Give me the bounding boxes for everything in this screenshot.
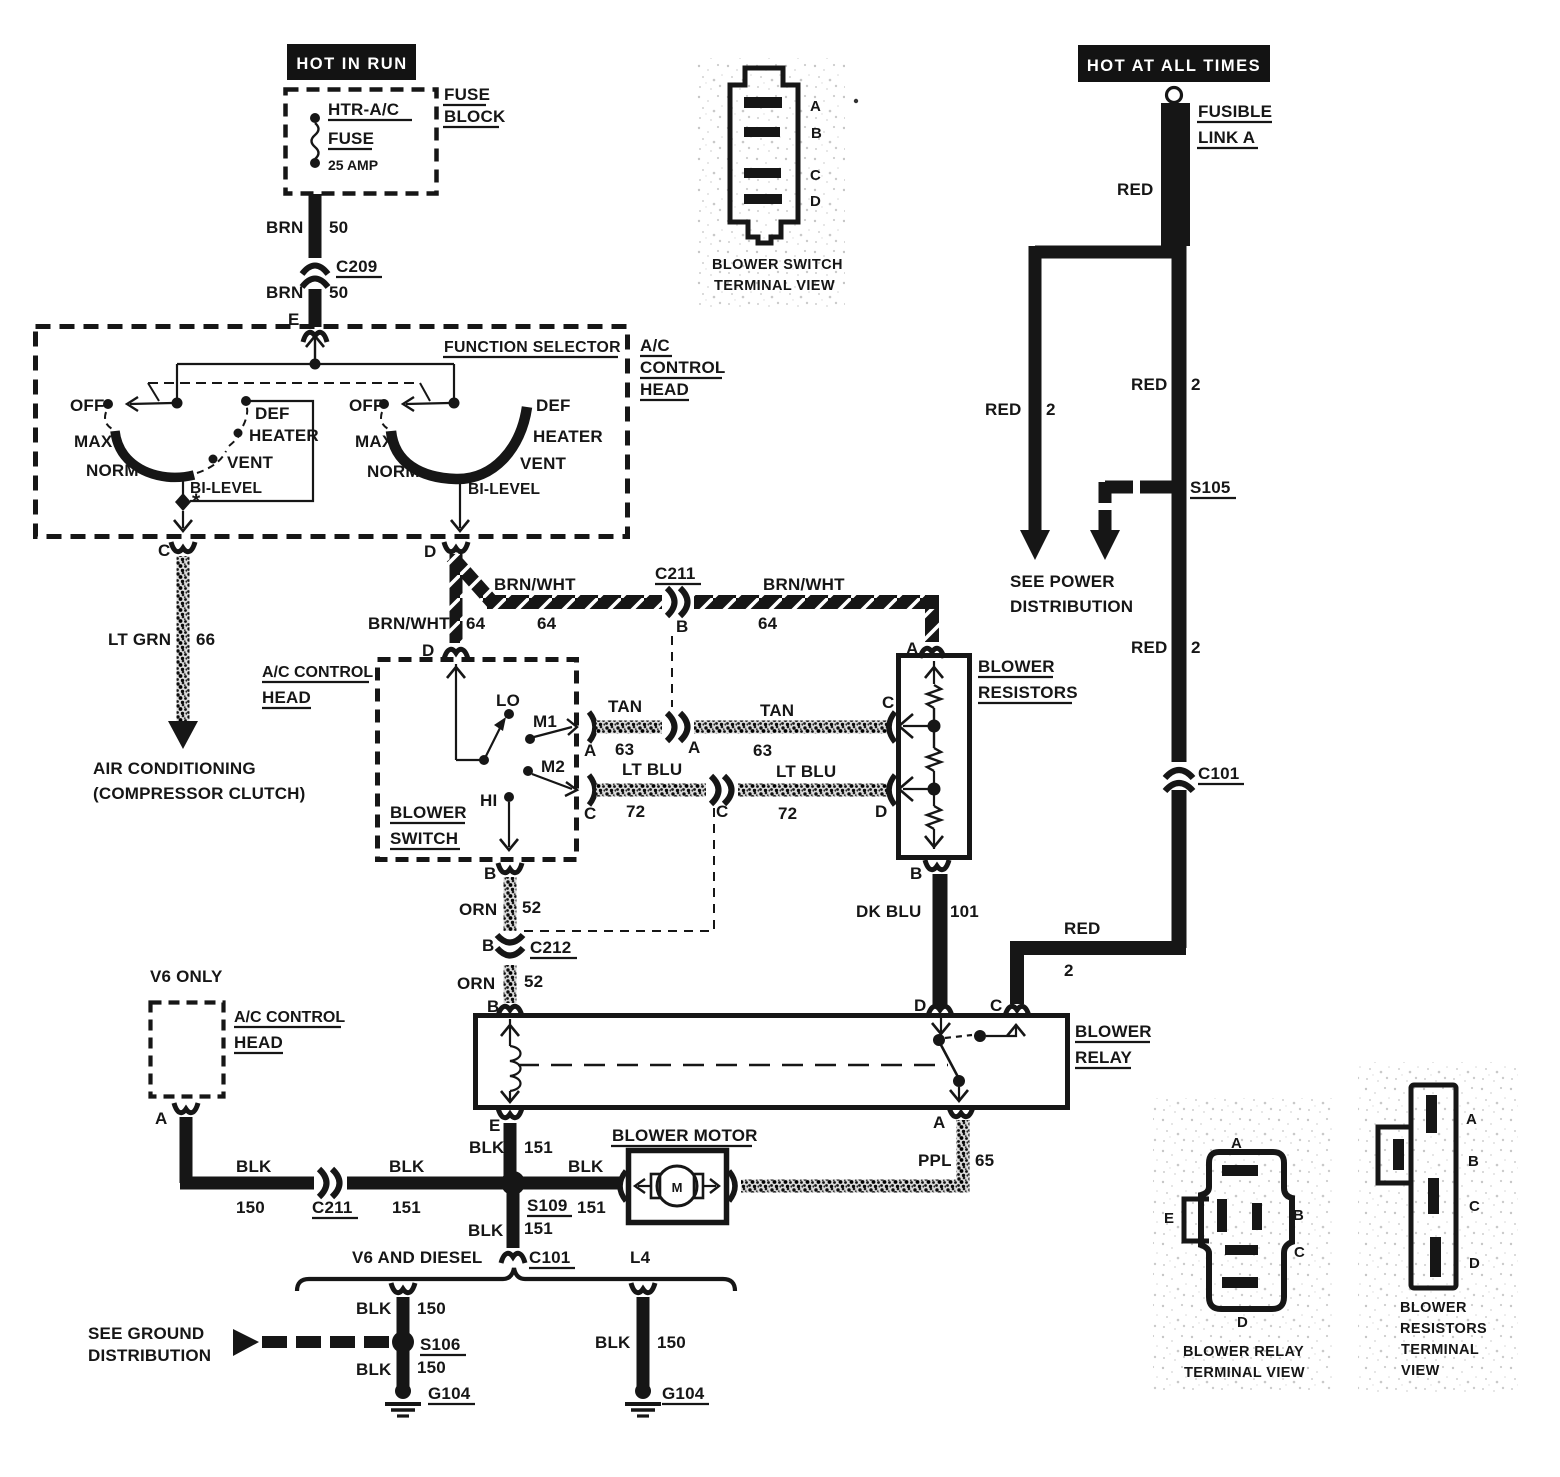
svg-text:LINK A: LINK A: [1198, 128, 1255, 147]
node OFF left: [103, 399, 113, 409]
svg-text:HEAD: HEAD: [234, 1033, 283, 1052]
svg-text:B: B: [484, 864, 496, 883]
svg-text:DK BLU: DK BLU: [856, 902, 921, 921]
svg-text:V6 AND DIESEL: V6 AND DIESEL: [352, 1248, 482, 1267]
wire RED 2 main vertical: [1172, 246, 1187, 948]
svg-text:BLK: BLK: [468, 1221, 504, 1240]
svg-text:BLK: BLK: [236, 1157, 272, 1176]
connector C101: [501, 1253, 525, 1263]
svg-text:L4: L4: [630, 1248, 651, 1267]
ground G104 left: [385, 1383, 475, 1416]
svg-text:A: A: [584, 741, 596, 760]
svg-text:C209: C209: [336, 257, 377, 276]
svg-text:A: A: [1231, 1135, 1242, 1152]
node D tap: [928, 783, 941, 796]
svg-text:FUSIBLE: FUSIBLE: [1198, 102, 1272, 121]
svg-text:PPL: PPL: [918, 1151, 952, 1170]
pin C bracket: [589, 775, 595, 805]
E tab: [1184, 1199, 1209, 1241]
pin right motor: [729, 1171, 735, 1201]
relay dashed link: [518, 1064, 948, 1066]
pin A bracket: [589, 712, 595, 742]
svg-text:101: 101: [950, 902, 979, 921]
svg-text:A/C: A/C: [640, 336, 670, 355]
svg-text:72: 72: [626, 802, 645, 821]
wire M1 to A: [534, 727, 572, 737]
svg-text:2: 2: [1046, 400, 1056, 419]
svg-text:C212: C212: [530, 938, 571, 957]
svg-text:72: 72: [778, 804, 797, 823]
resistor chain: [925, 661, 943, 849]
svg-text:150: 150: [657, 1333, 686, 1352]
svg-text:TERMINAL VIEW: TERMINAL VIEW: [1184, 1365, 1305, 1381]
svg-text:BLK: BLK: [469, 1138, 505, 1157]
svg-text:BLOWER SWITCH: BLOWER SWITCH: [712, 257, 843, 273]
svg-text:BLK: BLK: [356, 1360, 392, 1379]
svg-text:D: D: [1469, 1255, 1480, 1272]
svg-text:G104: G104: [428, 1384, 471, 1403]
svg-text:SEE GROUND: SEE GROUND: [88, 1324, 204, 1343]
node C tap: [928, 720, 941, 733]
wire BRN/WHT down to resistors A: [925, 602, 939, 642]
svg-text:BRN/WHT: BRN/WHT: [368, 614, 450, 633]
arrow into function selector: [314, 338, 316, 364]
svg-text:NORM: NORM: [367, 462, 420, 481]
svg-text:HOT IN RUN: HOT IN RUN: [296, 55, 407, 73]
dashed connector link down from LT BLU C: [522, 808, 714, 931]
svg-text:B: B: [811, 125, 822, 142]
svg-text:E: E: [1164, 1210, 1174, 1227]
see ground distribution arrow: [233, 1329, 259, 1356]
svg-text:BLOWER: BLOWER: [1075, 1022, 1152, 1041]
connector C101 on RED: [1163, 762, 1244, 791]
svg-text:D: D: [875, 802, 887, 821]
wire arc to pin D: [459, 480, 461, 528]
svg-text:HEAD: HEAD: [640, 380, 689, 399]
svg-text:BLK: BLK: [595, 1333, 631, 1352]
svg-text:BLK: BLK: [568, 1157, 604, 1176]
connector outline: [730, 68, 798, 243]
wire TAN 63: [596, 721, 887, 734]
dashed connector line from C211 B: [671, 636, 673, 707]
motor M: [635, 1166, 719, 1206]
svg-text:VENT: VENT: [227, 453, 274, 472]
svg-text:B: B: [910, 864, 922, 883]
wire HI to B: [508, 802, 510, 847]
svg-text:S105: S105: [1190, 478, 1231, 497]
svg-text:TERMINAL: TERMINAL: [1401, 1342, 1479, 1358]
label BLOWER SWITCH: [390, 803, 467, 849]
svg-text:BLK: BLK: [356, 1299, 392, 1318]
connector C211 on BRN/WHT: [655, 564, 701, 636]
connector outline: [1201, 1152, 1292, 1309]
svg-text:A: A: [155, 1109, 167, 1128]
svg-text:BRN: BRN: [266, 283, 303, 302]
wire LT BLU 72: [596, 784, 887, 797]
svg-text:BRN/WHT: BRN/WHT: [763, 575, 845, 594]
label HOT AT ALL TIMES: [1078, 45, 1270, 82]
svg-text:151: 151: [392, 1198, 421, 1217]
wire RED 2 elbow to relay C: [1017, 941, 1186, 955]
label BLOWER RELAY: [1075, 1022, 1152, 1068]
svg-text:C: C: [1294, 1244, 1305, 1261]
svg-text:50: 50: [329, 218, 348, 237]
node output diamond: [175, 493, 191, 511]
svg-text:64: 64: [537, 614, 557, 633]
svg-text:TERMINAL VIEW: TERMINAL VIEW: [714, 278, 835, 294]
wire DK BLU 101: [933, 874, 948, 1007]
label A/C CONTROL HEAD: [640, 336, 725, 400]
svg-text:BLOWER: BLOWER: [978, 657, 1055, 676]
svg-text:BLK: BLK: [389, 1157, 425, 1176]
svg-text:ORN: ORN: [457, 974, 495, 993]
brace: [297, 1268, 735, 1291]
slots: [1222, 1165, 1258, 1176]
label FUSE BLOCK: [443, 85, 506, 127]
wire ORN 52 lower: [504, 965, 517, 1003]
svg-text:2: 2: [1064, 961, 1074, 980]
wire BLK down from S109: [507, 1183, 520, 1248]
node M1: [525, 734, 535, 744]
svg-text:TAN: TAN: [608, 697, 642, 716]
label BLOWER RESISTORS: [978, 657, 1078, 703]
node LO: [504, 709, 514, 719]
wire BLK 151 from relay E: [504, 1123, 517, 1183]
svg-text:FUSE: FUSE: [328, 129, 374, 148]
blower motor box: [629, 1151, 727, 1223]
svg-text:D: D: [1237, 1314, 1248, 1331]
terminal circle: [1167, 88, 1182, 103]
svg-text:TAN: TAN: [760, 701, 794, 720]
svg-text:RED: RED: [1131, 638, 1168, 657]
wire RED 2 left branch: [1035, 246, 1172, 259]
svg-text:RED: RED: [1131, 375, 1168, 394]
connector on LT BLU: [706, 773, 738, 807]
svg-text:S106: S106: [420, 1335, 461, 1354]
wire to pin C: [182, 511, 184, 528]
svg-text:150: 150: [417, 1299, 446, 1318]
wire BRN 50 fuse block to C209: [309, 194, 322, 258]
blower switch dashed box: [378, 660, 577, 860]
terminal slots: [744, 97, 782, 108]
wire PPL 65: [741, 1120, 963, 1186]
svg-text:2: 2: [1191, 638, 1201, 657]
svg-text:63: 63: [753, 741, 772, 760]
svg-text:V6 ONLY: V6 ONLY: [150, 967, 223, 986]
right switch wiper: [406, 403, 449, 404]
svg-text:DISTRIBUTION: DISTRIBUTION: [1010, 597, 1133, 616]
ground G104 right: [625, 1383, 709, 1416]
svg-text:BLOWER: BLOWER: [1400, 1300, 1467, 1316]
svg-text:151: 151: [524, 1219, 553, 1238]
svg-text:2: 2: [1191, 375, 1201, 394]
left switch position labels: [70, 396, 319, 497]
svg-text:BLOWER MOTOR: BLOWER MOTOR: [612, 1126, 758, 1145]
svg-text:C: C: [584, 804, 596, 823]
svg-text:RELAY: RELAY: [1075, 1048, 1133, 1067]
splice S106: [392, 1331, 414, 1353]
left switch arc: [105, 412, 114, 430]
blower relay box: [476, 1016, 1068, 1108]
svg-text:D: D: [424, 542, 436, 561]
svg-text:VIEW: VIEW: [1401, 1363, 1440, 1379]
right switch position labels: [349, 396, 603, 498]
svg-text:M1: M1: [533, 712, 557, 731]
fusible link A: [1161, 103, 1190, 246]
svg-text:C101: C101: [529, 1248, 570, 1267]
connector outline: [1411, 1085, 1456, 1288]
svg-text:150: 150: [417, 1358, 446, 1377]
svg-text:G104: G104: [662, 1384, 705, 1403]
svg-text:HI: HI: [480, 791, 497, 810]
svg-text:BLOWER RELAY: BLOWER RELAY: [1183, 1344, 1304, 1360]
svg-text:HEATER: HEATER: [533, 427, 603, 446]
svg-text:BRN: BRN: [266, 218, 303, 237]
wire BLK 150 down: [180, 1117, 193, 1183]
wire BRN/WHT 64 vertical D to blower switch: [450, 554, 463, 643]
svg-text:A: A: [933, 1113, 945, 1132]
svg-text:OFF: OFF: [349, 396, 384, 415]
wire M2 to C: [532, 774, 572, 789]
svg-text:C101: C101: [1198, 764, 1239, 783]
svg-text:C: C: [882, 693, 894, 712]
wire LT GRN 66: [177, 556, 190, 722]
svg-text:AIR CONDITIONING: AIR CONDITIONING: [93, 759, 256, 778]
svg-text:HTR-A/C: HTR-A/C: [328, 100, 399, 119]
svg-text:B: B: [482, 936, 494, 955]
wire arc to output node: [182, 478, 184, 495]
svg-text:A/C CONTROL: A/C CONTROL: [234, 1009, 345, 1026]
svg-text:D: D: [810, 193, 821, 210]
svg-text:RED: RED: [1064, 919, 1101, 938]
svg-text:OFF: OFF: [70, 396, 105, 415]
svg-text:C: C: [810, 167, 821, 184]
svg-text:HEAD: HEAD: [262, 688, 311, 707]
svg-text:RED: RED: [985, 400, 1022, 419]
mechanical link dashed: [148, 383, 430, 401]
svg-text:66: 66: [196, 630, 215, 649]
label A/C CONTROL HEAD: [262, 664, 373, 708]
a/c control head V6 dashed box: [151, 1003, 224, 1097]
svg-text:DEF: DEF: [255, 404, 290, 423]
node OFF right: [379, 399, 389, 409]
svg-text:MAX: MAX: [74, 432, 113, 451]
right branch pin: [631, 1283, 655, 1293]
svg-text:C211: C211: [312, 1198, 353, 1217]
svg-text:BLOWER: BLOWER: [390, 803, 467, 822]
svg-text:A: A: [810, 98, 821, 115]
fuse HTR-A/C FUSE 25 AMP: [310, 100, 412, 173]
svg-text:52: 52: [522, 898, 541, 917]
label A/C CONTROL HEAD: [234, 1009, 345, 1053]
wire BLK 150 left: [397, 1297, 410, 1388]
node HI: [504, 792, 514, 802]
svg-text:50: 50: [329, 283, 348, 302]
left switch wiper: [130, 403, 172, 404]
svg-text:M: M: [672, 1180, 683, 1195]
svg-text:A/C CONTROL: A/C CONTROL: [262, 664, 373, 681]
svg-text:151: 151: [577, 1198, 606, 1217]
wire BLK horizontal run: [180, 1177, 620, 1190]
B tab: [1378, 1127, 1413, 1183]
fuse block dashed box: [286, 90, 437, 194]
svg-text:64: 64: [466, 614, 486, 633]
svg-text:C: C: [158, 541, 170, 560]
blower resistors box: [899, 656, 970, 858]
svg-text:A: A: [688, 738, 700, 757]
stray mark: [854, 99, 858, 103]
wire BRN 50 C209 to selector: [309, 289, 322, 327]
svg-text:CONTROL: CONTROL: [640, 358, 725, 377]
svg-text:M2: M2: [541, 757, 565, 776]
svg-text:S109: S109: [527, 1196, 568, 1215]
connector C209: [302, 257, 382, 287]
connector C211 on BLK: [312, 1166, 358, 1218]
svg-text:SEE POWER: SEE POWER: [1010, 572, 1115, 591]
svg-text:65: 65: [975, 1151, 994, 1170]
svg-text:RED: RED: [1117, 180, 1154, 199]
svg-text:VENT: VENT: [520, 454, 567, 473]
contact to C: [945, 1035, 972, 1038]
svg-text:D: D: [914, 996, 926, 1015]
svg-text:C: C: [990, 996, 1002, 1015]
svg-text:C: C: [716, 802, 728, 821]
right switch arc: [381, 412, 390, 430]
svg-text:LT GRN: LT GRN: [108, 630, 171, 649]
wiper arrow to LO: [486, 728, 500, 756]
svg-text:FUNCTION SELECTOR: FUNCTION SELECTOR: [444, 339, 621, 356]
label HOT IN RUN: [287, 44, 416, 80]
connector C211 on TAN: [662, 710, 694, 744]
node M2: [523, 766, 533, 776]
svg-text:DEF: DEF: [536, 396, 571, 415]
svg-text:BI-LEVEL: BI-LEVEL: [468, 481, 540, 498]
wire BLK 150 right: [637, 1297, 650, 1388]
svg-text:A: A: [1466, 1111, 1477, 1128]
svg-text:HEATER: HEATER: [249, 426, 319, 445]
svg-text:SWITCH: SWITCH: [390, 829, 458, 848]
svg-text:B: B: [1468, 1153, 1479, 1170]
wire BRN/WHT 64 horizontal run: [487, 595, 932, 609]
svg-text:RESISTORS: RESISTORS: [1400, 1321, 1487, 1337]
splice S105 branch: [1105, 481, 1172, 494]
svg-text:(COMPRESSOR CLUTCH): (COMPRESSOR CLUTCH): [93, 784, 306, 803]
wire BLK 151 to motor: [513, 1177, 618, 1190]
svg-text:FUSE: FUSE: [444, 85, 490, 104]
svg-text:DISTRIBUTION: DISTRIBUTION: [88, 1346, 211, 1365]
svg-text:64: 64: [758, 614, 778, 633]
splice S109: [501, 1171, 525, 1195]
relay contact D: [940, 1017, 942, 1032]
svg-text:B: B: [676, 617, 688, 636]
svg-text:LT BLU: LT BLU: [776, 762, 836, 781]
arrow to air conditioning: [168, 721, 198, 749]
selector bus wiring: [172, 359, 460, 409]
slots: [1426, 1095, 1437, 1133]
relay armature: [941, 1045, 958, 1077]
svg-text:LT BLU: LT BLU: [622, 760, 682, 779]
pin left motor: [620, 1171, 626, 1201]
svg-text:150: 150: [236, 1198, 265, 1217]
svg-text:ORN: ORN: [459, 900, 497, 919]
svg-text:NORM: NORM: [86, 461, 139, 480]
svg-text:C211: C211: [655, 564, 696, 583]
svg-text:151: 151: [524, 1138, 553, 1157]
svg-text:BI-LEVEL: BI-LEVEL: [190, 480, 262, 497]
svg-text:RESISTORS: RESISTORS: [978, 683, 1078, 702]
svg-text:MAX: MAX: [355, 432, 394, 451]
switch common feed: [447, 664, 489, 765]
bracket at resistors C: [889, 712, 895, 742]
svg-text:HOT AT ALL TIMES: HOT AT ALL TIMES: [1087, 57, 1261, 75]
svg-text:LO: LO: [496, 691, 520, 710]
nodes VENT HEATER DEF left: [209, 455, 218, 464]
svg-text:63: 63: [615, 740, 634, 759]
svg-text:C: C: [1469, 1198, 1480, 1215]
svg-text:52: 52: [524, 972, 543, 991]
svg-text:BRN/WHT: BRN/WHT: [494, 575, 576, 594]
left branch pin: [391, 1283, 415, 1293]
svg-text:B: B: [1293, 1207, 1304, 1224]
bracket at resistors D: [889, 775, 895, 805]
wire ORN 52 upper: [504, 877, 517, 931]
left switch output frame: [190, 401, 313, 501]
svg-text:E: E: [489, 1116, 501, 1135]
svg-text:BLOCK: BLOCK: [444, 107, 506, 126]
svg-text:25 AMP: 25 AMP: [328, 157, 378, 173]
wire BRN/WHT diagonal: [452, 557, 493, 603]
relay coil: [501, 1019, 521, 1102]
